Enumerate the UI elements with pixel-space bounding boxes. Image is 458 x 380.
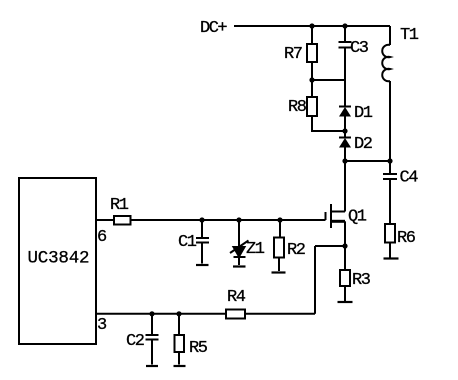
svg-text:R2: R2 bbox=[287, 241, 305, 260]
node: gate line / C1 bbox=[199, 217, 204, 222]
node: top rail / C3 bbox=[342, 23, 347, 28]
diode D2 bbox=[339, 135, 372, 154]
svg-text:C2: C2 bbox=[126, 332, 144, 351]
inductor T1 primary bbox=[382, 26, 418, 81]
wire: C4 to R6 bbox=[389, 179, 391, 224]
node: top rail / R7 bbox=[309, 23, 314, 28]
node: pin3 line / R5 bbox=[176, 311, 181, 316]
wire: C2 top stub bbox=[151, 314, 153, 335]
svg-text:R4: R4 bbox=[227, 288, 246, 307]
node: T1 bottom junction bbox=[387, 158, 392, 163]
capacitor C2 bbox=[126, 332, 159, 351]
wire: R5 bottom stub bbox=[178, 352, 180, 365]
wire: top rail DC+ bbox=[234, 25, 390, 27]
svg-text:DC+: DC+ bbox=[200, 19, 227, 38]
svg-text:D2: D2 bbox=[354, 135, 372, 154]
terminal bar below C2 bbox=[146, 365, 158, 367]
svg-text:R6: R6 bbox=[397, 229, 416, 248]
IC U1 UC3842 box bbox=[19, 178, 96, 344]
wire: C2 bottom stub bbox=[151, 340, 153, 365]
resistor R4 bbox=[226, 288, 246, 319]
wire: R2 top stub bbox=[279, 220, 281, 238]
wire: T1 bottom lead bbox=[389, 81, 391, 161]
node: pin3 line / C2 bbox=[149, 311, 154, 316]
svg-text:3: 3 bbox=[97, 316, 107, 335]
wire: D2 to drain rail bbox=[344, 148, 346, 162]
wire: C3 bottom to D1 bbox=[344, 48, 346, 107]
svg-text:R7: R7 bbox=[284, 45, 302, 64]
wire: R6 bottom stub bbox=[389, 243, 391, 259]
node: gate line / R2 bbox=[277, 217, 282, 222]
diode D1 bbox=[339, 104, 373, 123]
terminal bar below R2 bbox=[272, 271, 286, 273]
wire: C3 top stub bbox=[344, 26, 346, 42]
svg-text:R5: R5 bbox=[189, 339, 208, 358]
svg-text:C1: C1 bbox=[178, 233, 197, 252]
capacitor C1 bbox=[178, 233, 209, 252]
wire: R5 top stub bbox=[178, 314, 180, 335]
node: source junction bbox=[342, 243, 347, 248]
wire: R7 top stub bbox=[311, 26, 313, 44]
wire: R3 top stub bbox=[344, 246, 346, 270]
resistor R2 bbox=[274, 238, 305, 261]
wire: R8 bottom to D1/D2 midpoint bbox=[312, 116, 345, 131]
wire: C1 top stub bbox=[201, 220, 203, 238]
wire: feedback riser bbox=[314, 246, 316, 314]
zener diode Z1 bbox=[230, 240, 265, 259]
wire: R8 top stub bbox=[311, 80, 313, 97]
node: D1/D2 midpoint bbox=[342, 128, 347, 133]
resistor R6 bbox=[385, 224, 416, 248]
svg-text:UC3842: UC3842 bbox=[28, 249, 90, 269]
node: gate line / Z1 bbox=[236, 217, 241, 222]
resistor R1 bbox=[110, 196, 131, 225]
svg-text:T1: T1 bbox=[400, 26, 419, 45]
capacitor C4 bbox=[383, 169, 418, 188]
terminal bar below Z1 bbox=[233, 265, 246, 267]
wire: pin 3 line bbox=[96, 313, 315, 315]
wire: source junction to feedback riser bbox=[315, 245, 345, 247]
wire: T1 top drop bbox=[389, 26, 391, 45]
wire: R3 bottom stub bbox=[344, 286, 346, 301]
svg-text:R1: R1 bbox=[110, 196, 129, 215]
node: R7/R8 junction bbox=[309, 77, 314, 82]
svg-text:Q1: Q1 bbox=[348, 208, 367, 227]
wire: R2 bottom stub bbox=[278, 258, 280, 272]
svg-text:R8: R8 bbox=[288, 98, 307, 117]
capacitor C3 bbox=[339, 39, 369, 58]
terminal bar below R6 bbox=[384, 257, 399, 259]
wire: R7 bottom stub bbox=[311, 62, 313, 80]
wire: Z1 bottom stub bbox=[238, 257, 240, 265]
node: clamp/drain junction bbox=[342, 158, 347, 163]
wire: D1 to D2 bbox=[344, 116, 346, 138]
svg-text:6: 6 bbox=[97, 228, 107, 247]
transistor Q1 (MOSFET) bbox=[326, 204, 367, 228]
resistor R3 bbox=[340, 270, 371, 290]
resistor R5 bbox=[175, 335, 208, 358]
wire: clamp junction to T1 bottom bbox=[345, 160, 390, 162]
svg-text:C4: C4 bbox=[400, 169, 419, 188]
terminal bar below R5 bbox=[174, 365, 186, 367]
wire: pin 6 gate line bbox=[96, 219, 326, 221]
resistor R7 bbox=[284, 44, 317, 64]
svg-text:Z1: Z1 bbox=[246, 240, 265, 259]
terminal bar below R3 bbox=[338, 301, 353, 303]
svg-text:C3: C3 bbox=[350, 39, 369, 58]
svg-text:D1: D1 bbox=[354, 104, 373, 123]
wire: Z1 top stub bbox=[238, 220, 240, 247]
wire: drain lead from clamp junction bbox=[344, 161, 346, 212]
wire: source lead bbox=[344, 221, 346, 246]
svg-text:R3: R3 bbox=[352, 271, 371, 290]
wire: R7/R8 junction to C3 branch bbox=[312, 79, 345, 81]
wire: C4 top stub bbox=[389, 161, 391, 174]
terminal bar below C1 bbox=[196, 264, 209, 266]
resistor R8 bbox=[288, 97, 317, 117]
wire: C1 bottom stub bbox=[201, 243, 203, 264]
